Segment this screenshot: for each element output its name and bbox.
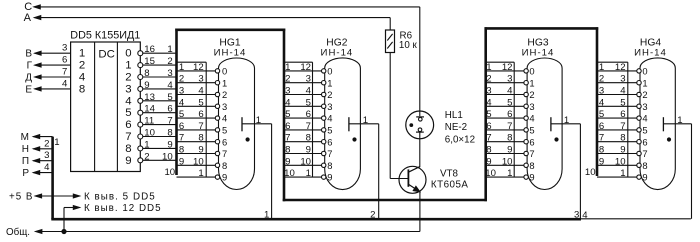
svg-text:12: 12 [615,62,626,73]
input Д pin 7 [25,66,70,83]
svg-text:2: 2 [144,151,149,162]
HG3 cathode 6: wire 7, pin 8 [486,133,535,148]
svg-text:1: 1 [198,168,203,179]
svg-text:5: 5 [179,109,184,120]
DD5 output 5: pin 14, wire 6 [138,104,177,116]
unit 2 boundary (thick) bottom [283,199,487,202]
svg-text:6: 6 [285,121,290,132]
svg-text:Е: Е [25,84,32,95]
HG2 pin table divider [312,62,314,177]
harness trunk (thick) horizontal [51,218,581,221]
svg-text:1: 1 [79,48,85,60]
DD5 output 6: pin 11, wire 7 [138,116,177,128]
svg-text:1: 1 [167,44,172,55]
HG4 cathode 2: wire 3, pin 4 [597,86,648,101]
svg-text:ИН-14: ИН-14 [214,48,247,59]
svg-text:8: 8 [285,145,290,156]
svg-text:DC: DC [98,48,114,60]
HG4 cathode 9: wire 10, pin 1 [585,167,648,183]
svg-text:2: 2 [599,74,604,85]
svg-text:5: 5 [285,109,290,120]
HG4 cathode 3: wire 4, pin 5 [597,97,648,112]
wire VT8 emitter to common [419,192,421,232]
HG4 cathode 8: wire 9, pin 10 [597,156,648,171]
svg-text:2: 2 [222,89,227,100]
HG1 cathode 5: wire 6, pin 7 [177,121,228,136]
svg-text:12: 12 [193,62,204,73]
HG1 cathode 8: wire 9, pin 10 [177,156,228,171]
svg-text:7: 7 [285,133,290,144]
svg-text:DD5 К155ИД1: DD5 К155ИД1 [70,29,140,41]
HG1 cathode 9: wire 10, pin 1 [164,167,227,183]
svg-text:К выв. 12 DD5: К выв. 12 DD5 [84,203,162,214]
svg-text:8: 8 [599,145,604,156]
+5 В to К выв. 5 DD5 [9,191,156,202]
svg-text:В: В [25,49,32,60]
svg-text:8: 8 [144,68,149,79]
svg-text:4: 4 [285,97,291,108]
svg-text:2: 2 [167,56,172,67]
svg-text:2: 2 [285,74,290,85]
svg-text:3: 3 [327,101,332,112]
svg-text:7: 7 [306,121,311,132]
svg-text:4: 4 [62,78,68,89]
HG1 pin table top line [177,61,207,63]
svg-text:2: 2 [642,89,647,100]
HG4 anode pin 1 [663,115,691,131]
svg-text:5: 5 [642,125,647,136]
svg-text:1: 1 [620,168,625,179]
svg-text:4: 4 [529,113,534,124]
svg-text:2: 2 [486,74,491,85]
К выв. 12 DD5 stub from common [64,203,162,232]
svg-text:6,0×12: 6,0×12 [445,134,475,145]
DD5 output digit labels 0-9 [125,48,131,167]
svg-text:6: 6 [620,109,625,120]
svg-text:6: 6 [507,109,512,120]
HG3 envelope [527,58,562,190]
svg-text:5: 5 [529,125,534,136]
HG2 anode wire down to harness [370,124,379,221]
DD5 output 9: pin 2, wire 10 [138,151,177,163]
svg-text:1: 1 [327,77,332,88]
svg-text:3: 3 [620,74,625,85]
svg-text:+5 В: +5 В [9,191,33,202]
svg-text:9: 9 [179,156,184,167]
svg-text:7: 7 [167,116,172,127]
HG1 cathode 4: wire 5, pin 6 [177,109,228,124]
svg-text:3: 3 [62,43,67,54]
svg-text:1: 1 [285,62,290,73]
svg-text:4: 4 [507,86,513,97]
svg-text:VT8: VT8 [440,169,459,180]
svg-text:КТ605А: КТ605А [431,180,469,191]
svg-text:9: 9 [529,172,534,183]
svg-text:6: 6 [222,136,227,147]
nixie tube HG2 ИН-14 label [321,37,354,58]
svg-text:5: 5 [222,125,227,136]
svg-text:4: 4 [599,97,605,108]
input П [22,150,53,167]
svg-text:0: 0 [642,66,647,77]
HG3 anode pin 1 [551,115,581,131]
resistor R6 10 к [386,30,418,53]
HG2 cathode 9: wire 10, pin 1 [284,168,332,183]
svg-text:11: 11 [144,116,154,127]
svg-text:9: 9 [599,156,604,167]
HG2 cathode 6: wire 7, pin 8 [284,133,332,148]
svg-text:4: 4 [125,95,131,107]
svg-text:3: 3 [179,86,184,97]
HG1 anode wire down to harness [264,124,272,221]
svg-text:3: 3 [125,83,131,95]
svg-text:8: 8 [642,160,647,171]
svg-text:6: 6 [179,121,184,132]
HG2 cathode 1: wire 2, pin 3 [284,74,332,89]
HG4 cathode 6: wire 7, pin 8 [597,133,648,148]
svg-text:7: 7 [620,121,625,132]
svg-text:3: 3 [306,74,311,85]
svg-text:8: 8 [222,160,227,171]
DD5 output 4: pin 13, wire 5 [138,92,177,104]
unit 3 boundary (thick) top [485,27,599,30]
svg-text:10: 10 [144,128,155,139]
svg-text:1: 1 [54,137,59,148]
input М [21,132,53,143]
svg-text:6: 6 [167,104,172,115]
svg-text:1: 1 [256,115,261,126]
svg-text:6: 6 [327,136,332,147]
svg-text:0: 0 [125,48,131,60]
HG2 pin table top line [284,61,313,63]
svg-text:9: 9 [486,156,491,167]
HG1 cathode 2: wire 3, pin 4 [177,86,228,101]
HG2 cathode 8: wire 9, pin 10 [284,156,332,171]
IC DD5 box [71,42,141,172]
unit 3 boundary (thick) right [596,27,599,176]
transistor VT8 КТ605А [399,166,468,193]
HG2 cathode 4: wire 5, pin 6 [284,109,332,124]
svg-text:9: 9 [198,145,203,156]
HG4 cathode 5: wire 6, pin 7 [597,121,648,136]
svg-text:8: 8 [529,160,534,171]
svg-text:2: 2 [44,138,49,149]
DD5 output 1: pin 15, wire 2 [138,56,177,68]
svg-text:10: 10 [615,156,626,167]
input Е pin 4 [25,78,70,95]
svg-text:HG2: HG2 [326,37,347,48]
svg-text:1: 1 [642,77,647,88]
svg-text:8: 8 [79,83,85,95]
svg-text:7: 7 [642,148,647,159]
svg-text:5: 5 [620,97,625,108]
svg-text:7: 7 [507,121,512,132]
svg-text:1: 1 [179,62,184,73]
svg-text:5: 5 [486,109,491,120]
svg-text:3: 3 [222,101,227,112]
svg-text:3: 3 [529,101,534,112]
svg-text:7: 7 [599,133,604,144]
svg-text:12: 12 [502,62,513,73]
svg-text:0: 0 [327,66,332,77]
HG2 cathode 7: wire 8, pin 9 [284,145,332,160]
svg-text:1: 1 [529,77,534,88]
svg-text:HG3: HG3 [527,37,548,48]
unit 2/3 shared boundary (thick) [484,27,487,201]
svg-text:9: 9 [222,172,227,183]
junction dot on common [62,229,66,233]
HG2 anode pin 1 [349,115,379,131]
svg-text:3: 3 [507,74,512,85]
svg-text:3: 3 [642,101,647,112]
input В pin 3 [25,43,70,60]
common wire Общ. [6,227,420,238]
nixie tube HG4 ИН-14 label [634,37,667,58]
svg-text:4: 4 [79,71,85,83]
input Р [22,162,52,179]
svg-text:15: 15 [144,56,155,67]
svg-text:1: 1 [125,60,131,72]
svg-text:2: 2 [79,60,85,72]
HG4 cathode 1: wire 2, pin 3 [597,74,648,89]
svg-text:10: 10 [502,156,513,167]
svg-text:Г: Г [27,61,33,72]
HG1 cathode 7: wire 8, pin 9 [177,145,228,160]
wire C (net C to HL1) [24,1,420,116]
svg-text:1: 1 [306,168,311,179]
svg-text:10: 10 [585,167,596,178]
svg-text:2: 2 [125,72,131,84]
HG2 indicator dot [353,138,356,141]
svg-text:10: 10 [164,167,175,178]
svg-text:5: 5 [507,97,512,108]
svg-text:0: 0 [529,66,534,77]
svg-text:3: 3 [167,68,172,79]
svg-text:4: 4 [167,80,173,91]
wire 4 continuation to HG4 [581,218,691,220]
wire R6 to VT8 base [390,53,407,179]
svg-text:9: 9 [285,156,290,167]
svg-text:3: 3 [198,74,203,85]
svg-text:4: 4 [44,162,50,173]
svg-text:3: 3 [599,86,604,97]
HG2 cathode 2: wire 3, pin 4 [284,86,332,101]
svg-text:8: 8 [620,133,625,144]
HG3 cathode 2: wire 3, pin 4 [486,86,535,101]
HG2 cathode 0: wire 1, pin 12 [284,62,332,77]
HG4 anode wire down to harness [691,124,693,219]
svg-text:4: 4 [179,97,185,108]
svg-text:5: 5 [198,97,203,108]
svg-text:Д: Д [25,72,32,83]
svg-text:4: 4 [222,113,227,124]
svg-text:Общ.: Общ. [6,227,30,238]
svg-text:10: 10 [193,156,204,167]
svg-text:6: 6 [599,121,604,132]
HG1 pin table divider [205,62,207,177]
DD5 output 0: pin 16, wire 1 [138,44,177,56]
svg-text:4: 4 [486,97,492,108]
svg-text:6: 6 [306,109,311,120]
svg-text:6: 6 [529,136,534,147]
HG1 cathode 3: wire 4, pin 5 [177,97,228,112]
svg-text:8: 8 [167,128,172,139]
svg-text:А: А [24,12,32,24]
svg-text:6: 6 [486,121,491,132]
svg-text:Р: Р [22,168,29,179]
unit 1/2 shared boundary (thick) [283,29,286,202]
nixie tube HG1 ИН-14 label [214,37,247,58]
svg-text:1: 1 [677,115,682,126]
svg-text:5: 5 [599,109,604,120]
HG3 cathode 4: wire 5, pin 6 [486,109,535,124]
svg-text:1: 1 [486,62,491,73]
svg-text:7: 7 [486,133,491,144]
svg-text:4: 4 [327,113,332,124]
HG1 cathode 1: wire 2, pin 3 [177,74,228,89]
svg-text:7: 7 [198,121,203,132]
svg-text:Н: Н [22,144,29,155]
svg-text:10: 10 [485,168,496,179]
HG3 cathode 9: wire 10, pin 1 [485,168,534,183]
svg-text:10 к: 10 к [399,40,418,51]
svg-text:2: 2 [529,89,534,100]
unit 1 boundary (thick) left [175,29,178,176]
svg-text:14: 14 [144,104,155,115]
HG2 cathode 3: wire 4, pin 5 [284,97,332,112]
HG1 cathode 0: wire 1, pin 12 [177,62,228,77]
DD5 output 3: pin 9, wire 4 [138,80,177,92]
HG4 cathode 7: wire 8, pin 9 [597,145,648,160]
svg-text:3: 3 [44,150,49,161]
HG4 pin table divider [627,62,629,177]
input Г pin 6 [27,55,71,72]
svg-text:16: 16 [144,44,155,55]
DD5 output 2: pin 8, wire 3 [138,68,177,80]
HG3 cathode 5: wire 6, pin 7 [486,121,535,136]
svg-text:4: 4 [620,86,626,97]
svg-text:2: 2 [179,74,184,85]
svg-text:5: 5 [306,97,311,108]
HG2 envelope [325,58,361,190]
wire A (net A to R6) [24,12,391,30]
svg-text:8: 8 [198,133,203,144]
svg-text:7: 7 [62,66,67,77]
HG1 cathode 6: wire 7, pin 8 [177,133,228,148]
unit 1 boundary (thick) top [175,28,285,31]
svg-text:5: 5 [327,125,332,136]
HG3 indicator dot [555,138,558,141]
DD5 input weight labels 1 2 4 8 [79,48,85,96]
svg-text:0: 0 [222,66,227,77]
svg-text:ИН-14: ИН-14 [522,48,555,59]
HG4 cathode 4: wire 5, pin 6 [597,109,648,124]
svg-text:9: 9 [620,145,625,156]
svg-text:П: П [22,156,29,167]
svg-text:9: 9 [642,172,647,183]
HG1 indicator dot [246,138,249,141]
svg-text:7: 7 [125,131,131,143]
svg-text:2: 2 [327,89,332,100]
svg-text:9: 9 [167,139,172,150]
HG1 anode pin 1 [242,115,272,131]
svg-text:9: 9 [507,145,512,156]
HG4 envelope [640,58,675,190]
HG3 cathode 3: wire 4, pin 5 [486,97,535,112]
HG2 cathode 5: wire 6, pin 7 [284,121,332,136]
svg-text:8: 8 [507,133,512,144]
HG3 anode wire down to harness [574,124,580,221]
DD5 output 7: pin 10, wire 8 [138,128,177,140]
svg-text:8: 8 [306,133,311,144]
svg-text:9: 9 [327,172,332,183]
svg-text:ИН-14: ИН-14 [634,48,667,59]
svg-text:7: 7 [222,148,227,159]
HG1 envelope [219,58,255,190]
svg-text:1: 1 [363,115,368,126]
neon lamp HL1 NE-2 [406,110,475,167]
svg-text:1: 1 [599,62,604,73]
svg-text:5: 5 [125,107,131,119]
svg-text:8: 8 [179,145,184,156]
harness trunk (thick) vertical [51,137,54,220]
input Н [22,138,53,155]
svg-text:1: 1 [564,115,569,126]
svg-text:9: 9 [144,80,149,91]
svg-text:7: 7 [179,133,184,144]
svg-text:9: 9 [306,145,311,156]
svg-text:9: 9 [125,155,131,167]
svg-text:NE-2: NE-2 [445,122,467,133]
svg-text:7: 7 [529,148,534,159]
svg-text:3: 3 [486,86,491,97]
HG3 cathode 8: wire 9, pin 10 [486,156,535,171]
DD5 output 8: pin 1, wire 9 [138,139,177,151]
HG4 pin table top line [597,61,628,63]
svg-text:5: 5 [167,92,172,103]
HG3 pin table divider [513,62,515,177]
svg-text:13: 13 [144,92,155,103]
svg-text:К выв. 5 DD5: К выв. 5 DD5 [84,191,156,202]
HG3 cathode 7: wire 8, pin 9 [486,145,535,160]
HG3 pin table top line [486,61,515,63]
HG4 indicator dot [667,138,670,141]
svg-text:10: 10 [284,168,295,179]
HG3 cathode 1: wire 2, pin 3 [486,74,535,89]
svg-text:8: 8 [125,143,131,155]
svg-text:4: 4 [306,86,312,97]
svg-text:3: 3 [285,86,290,97]
svg-text:1: 1 [507,168,512,179]
svg-text:HL1: HL1 [445,110,463,121]
svg-text:М: М [21,132,29,143]
svg-text:10: 10 [162,151,173,162]
svg-text:12: 12 [300,62,311,73]
svg-text:6: 6 [62,55,67,66]
svg-text:7: 7 [327,148,332,159]
svg-text:HG4: HG4 [640,37,661,48]
svg-text:1: 1 [144,139,149,150]
svg-text:8: 8 [327,160,332,171]
svg-text:8: 8 [486,145,491,156]
svg-text:10: 10 [300,156,311,167]
svg-text:4: 4 [198,86,204,97]
svg-text:HG1: HG1 [219,37,240,48]
svg-text:6: 6 [642,136,647,147]
nixie tube HG3 ИН-14 label [522,37,555,58]
HG3 cathode 0: wire 1, pin 12 [486,62,535,77]
svg-text:6: 6 [125,119,131,131]
